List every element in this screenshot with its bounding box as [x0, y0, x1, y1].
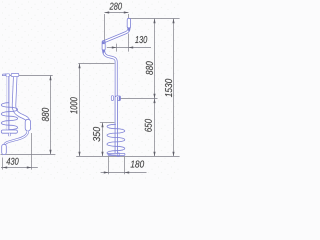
- dim 350 line: [102, 123, 104, 157]
- extension 880 right bottom (joint): [121, 97, 158, 99]
- label 1000: [70, 97, 77, 114]
- label 280: [109, 3, 121, 10]
- 180 arrows (outside): [104, 171, 109, 173]
- 880 right arrows: [153, 19, 155, 24]
- dim 180 line: [101, 172, 147, 174]
- dim 130 extension at shaft: [116, 44, 118, 52]
- cap on tube1: [6, 74, 10, 77]
- tip stub: [8, 133, 10, 136]
- dimension texts: [6, 3, 172, 168]
- 280 arrows: [105, 11, 110, 13]
- crank lower grip: [2, 144, 7, 154]
- dim 180 extension left: [108, 157, 110, 175]
- dim 430 extensions: [2, 158, 4, 170]
- dim 350 extension top: [100, 122, 115, 124]
- label 130: [135, 36, 147, 43]
- label 650: [145, 119, 152, 132]
- dim 280 extension right: [128, 14, 130, 18]
- crank+shaft tube centerline: [104, 19, 129, 97]
- dim 430 line: [1, 167, 38, 169]
- dim 880 left line: [50, 76, 52, 155]
- cap on tube2: [11, 73, 19, 76]
- left view top extension line: [2, 75, 53, 77]
- arrows: [3, 11, 175, 173]
- label 180: [131, 161, 145, 168]
- 1530 arrows: [172, 19, 174, 24]
- spiral left view: [1, 103, 17, 130]
- dim 280 extension left: [104, 14, 106, 40]
- lower grip: [102, 41, 105, 51]
- bottom extension right view: [76, 155, 179, 157]
- dim 180 extension right: [124, 157, 126, 175]
- folded crank grip upper: [25, 119, 30, 131]
- dim 1530 line: [173, 19, 175, 157]
- top grip: [127, 18, 130, 28]
- left view bottom extension line: [1, 153, 56, 155]
- drill tip: [117, 153, 119, 157]
- label 430: [6, 158, 18, 165]
- label 880: [42, 108, 49, 122]
- 430 arrows: [3, 166, 8, 168]
- 1000 arrows: [78, 64, 80, 69]
- top extension line right view: [129, 18, 180, 20]
- 130 arrows (outside): [112, 46, 117, 48]
- dim 130 line: [107, 47, 151, 49]
- 880 left arrows: [49, 76, 51, 81]
- extension 1000 top: [78, 63, 114, 65]
- dim 280 line: [105, 12, 129, 14]
- bottom blade: [108, 153, 125, 155]
- spiral right view: [107, 124, 125, 155]
- label 1530: [165, 79, 172, 97]
- lower shaft: [115, 97, 118, 153]
- dim 880 right line: [154, 19, 156, 99]
- coupling clamp: [111, 96, 113, 101]
- blade left view: [1, 130, 17, 133]
- label 880: [146, 61, 153, 75]
- left tip at top: [2, 74, 6, 76]
- crank lower tube: [4, 131, 28, 146]
- tube1 (shaft): [7, 76, 10, 130]
- dim 650 line: [154, 98, 156, 156]
- 350 arrows: [101, 123, 103, 128]
- dim 1000 line: [79, 64, 81, 157]
- tube2 (folded crank): [14, 77, 28, 130]
- dim 130 extension at grip: [128, 34, 130, 52]
- 650 arrows: [153, 98, 155, 103]
- label 350: [93, 127, 100, 142]
